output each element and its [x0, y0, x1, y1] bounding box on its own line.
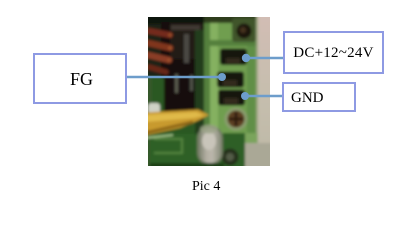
- GND line: [245, 95, 282, 98]
- light background strip right: [257, 14, 273, 169]
- green column below block: [223, 133, 245, 169]
- dark band over block top: [204, 14, 256, 23]
- pcb below block: [150, 134, 256, 169]
- pale streaks: [175, 74, 178, 93]
- bottom screw on block: [225, 108, 248, 131]
- resistor zone dark backdrop: [147, 24, 173, 77]
- pale trace sliver: [145, 135, 173, 138]
- FG label box: [33, 53, 127, 104]
- DC label box: [283, 31, 384, 74]
- left edge of block: [204, 14, 210, 134]
- shadow band above holes: [204, 40, 256, 46]
- left green sliver: [145, 25, 152, 169]
- relay block: [170, 24, 203, 59]
- dark top band: [145, 14, 206, 25]
- grey floor bottom right: [245, 143, 273, 169]
- caption: [192, 179, 220, 195]
- dark component area: [161, 22, 205, 78]
- GND label box: [282, 82, 356, 112]
- light green step: [245, 133, 257, 144]
- hole 1: [220, 49, 247, 66]
- DC line: [246, 57, 283, 60]
- terminal block green: [204, 14, 256, 134]
- white connector blob left: [148, 103, 160, 114]
- photo of PCB terminal block: [148, 17, 270, 166]
- pcb base green: [145, 14, 273, 169]
- dark bottom-left strip: [150, 163, 224, 169]
- bottom screw 2: [222, 149, 239, 166]
- white cylinder capsule: [197, 126, 223, 165]
- yellow cable: [145, 110, 209, 136]
- trace rectangle: [154, 139, 182, 153]
- hole 3: [218, 90, 245, 106]
- top screw: [237, 24, 252, 39]
- grey highlight bar: [184, 34, 189, 63]
- FG line: [124, 76, 222, 79]
- screw recess: [232, 18, 256, 42]
- resistors: [148, 31, 172, 72]
- mid green strip: [195, 30, 204, 137]
- hole 2: [217, 72, 244, 88]
